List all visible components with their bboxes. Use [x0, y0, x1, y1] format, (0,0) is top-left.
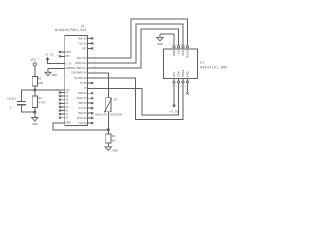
svg-text:CSN: CSN [177, 71, 181, 77]
NRF pin numbers bottom [171, 85, 187, 88]
wire VCC port to R1 [34, 66, 36, 76]
junction dot analog node [107, 129, 109, 131]
wire SCK: J1 D13 to NRF SCK [92, 24, 183, 63]
svg-text:MISO/D12: MISO/D12 [75, 62, 87, 65]
NRF top pin circles [173, 46, 175, 48]
svg-text:1: 1 [171, 43, 173, 46]
NRF pin numbers top [171, 43, 187, 46]
resistor R3 analog sensor body [106, 98, 111, 112]
resistor R2 body [32, 96, 37, 108]
svg-text:CE/PWM/D9: CE/PWM/D9 [74, 77, 87, 80]
wire junction down to R2 [34, 90, 36, 96]
wire R4 bottom to GND [107, 143, 109, 147]
svg-text:J1: J1 [81, 24, 85, 28]
connector J1 Arduino_Mini_3x3 body [65, 36, 88, 126]
GND symbol below R2/C1 [32, 118, 38, 122]
svg-text:3: 3 [176, 43, 178, 46]
svg-text:+3.3V: +3.3V [44, 53, 53, 56]
svg-text:A4: A4 [65, 102, 68, 105]
svg-text:AIN1/D7: AIN1/D7 [77, 97, 88, 100]
resistor R1 body [32, 76, 37, 86]
no-connect X mark NRF IRQ [186, 92, 188, 94]
svg-text:A2: A2 [65, 109, 68, 112]
junction dot R1/R2/C1/VCC [34, 89, 36, 91]
svg-text:A0: A0 [65, 117, 68, 120]
svg-text:NRF24L01_BRD: NRF24L01_BRD [200, 65, 227, 69]
svg-text:PWM/D5: PWM/D5 [78, 102, 87, 105]
svg-text:5: 5 [180, 43, 182, 46]
svg-text:4: 4 [176, 85, 178, 88]
GND symbol left of J1 [45, 72, 51, 75]
svg-text:470K: 470K [38, 102, 45, 105]
svg-text:ANALOG SENSOR: ANALOG SENSOR [95, 114, 122, 117]
wire R2 bottom to GND [34, 108, 36, 118]
junction dot C1/R2 bottom [34, 111, 36, 113]
svg-text:3.3V: 3.3V [65, 62, 71, 65]
wire J1 GND pin to GND symbol [48, 68, 60, 72]
svg-text:GND: GND [172, 50, 176, 56]
svg-text:R3: R3 [114, 99, 118, 102]
svg-text:TXD/D1: TXD/D1 [78, 42, 87, 45]
J1 left pin stubs [60, 52, 65, 123]
svg-text:R1: R1 [38, 78, 42, 81]
+3.3V power symbol NRF (down arrow) [173, 105, 176, 108]
J1 left pin name labels [65, 51, 71, 125]
wire NRF VCC pin to +3.3V [173, 83, 175, 105]
resistor R4 body [106, 134, 111, 143]
wire R1 bottom to junction [34, 86, 36, 90]
NRF bottom pin stubs and circles [174, 79, 188, 81]
svg-text:CE: CE [177, 50, 181, 54]
VCC power port circle [33, 63, 36, 66]
svg-text:SCK/D13: SCK/D13 [77, 57, 88, 60]
capacitor C1 plates [17, 100, 26, 102]
NRF pin labels top row [172, 50, 190, 58]
svg-text:GND: GND [32, 123, 38, 126]
svg-text:VCC: VCC [31, 58, 37, 62]
svg-text:PWM/D6: PWM/D6 [78, 92, 87, 95]
svg-text:D7: D7 [84, 87, 87, 90]
svg-text:7: 7 [185, 43, 187, 46]
svg-text:A6: A6 [65, 95, 68, 98]
wire C1 top [22, 90, 35, 101]
J1 pin numbers right [94, 55, 96, 88]
wire R3 bottom to node [107, 112, 109, 130]
svg-text:P1: P1 [200, 61, 204, 65]
wire A0 to analog node [53, 123, 109, 130]
svg-text:RST: RST [65, 55, 70, 58]
svg-text:XCK/D4: XCK/D4 [78, 107, 87, 110]
svg-text:RST: RST [82, 47, 87, 50]
svg-text:MOSI/PWM/D11: MOSI/PWM/D11 [70, 67, 88, 70]
svg-text:10uF1: 10uF1 [7, 97, 16, 100]
svg-text:Arduino_Mini_3x3: Arduino_Mini_3x3 [55, 28, 86, 33]
svg-text:A1: A1 [65, 113, 68, 116]
svg-text:MOSI: MOSI [181, 70, 185, 78]
wire NRF IRQ stub [187, 83, 189, 92]
wire NRF GND pin to GND symbol [160, 34, 174, 46]
sensor arrow through R3 [104, 99, 111, 113]
svg-text:TX/D8: TX/D8 [80, 82, 88, 85]
svg-text:VCC: VCC [172, 71, 176, 77]
GND symbol NRF top [157, 34, 163, 41]
svg-text:SCK: SCK [181, 50, 185, 56]
svg-text:GND: GND [112, 150, 118, 153]
svg-text:8: 8 [185, 85, 187, 88]
svg-text:GND: GND [52, 74, 58, 77]
svg-text:RXD/D0: RXD/D0 [78, 37, 87, 40]
J1 pin numbers left [57, 49, 59, 123]
svg-text:A3: A3 [65, 106, 68, 109]
svg-text:INT0/D2: INT0/D2 [77, 117, 88, 120]
wire CE: J1 D9 to NRF CE [92, 29, 178, 68]
svg-text:2: 2 [57, 49, 59, 52]
svg-text:BOOT: BOOT [65, 51, 71, 54]
wire CSN: J1 D10 to NRF CSN via bottom U [92, 83, 178, 115]
wire node to R4 [107, 130, 109, 134]
svg-text:MISO: MISO [186, 50, 190, 58]
svg-text:CSN/PWM/D10: CSN/PWM/D10 [71, 72, 87, 75]
wire +3.3V symbol to J1 3.3V pin [48, 60, 60, 64]
svg-text:A5: A5 [65, 99, 68, 102]
no-connect X marks J1 right [91, 37, 93, 124]
svg-text:6: 6 [180, 85, 182, 88]
svg-text:IRQ: IRQ [186, 71, 190, 77]
NRF pin labels bottom row [172, 70, 190, 78]
svg-text:+3.3V: +3.3V [169, 111, 178, 114]
NRF24L01 board P1 body [164, 49, 198, 79]
svg-text:R2: R2 [38, 97, 42, 100]
wire junction to J1 VCC pin [35, 89, 60, 91]
svg-text:2: 2 [171, 85, 173, 88]
J1 right pin stubs [88, 38, 93, 123]
svg-text:C: C [10, 106, 12, 109]
wire MISO: J1 D12 to NRF MISO via top bracket [92, 19, 187, 58]
wire sensor supply: J1 pin to R3 top [92, 73, 108, 98]
+3.3V power symbol left (up arrow) [46, 57, 49, 60]
wire C1 bottom [22, 105, 35, 112]
svg-text:1M0: 1M0 [38, 82, 44, 85]
svg-text:PWM/D3: PWM/D3 [78, 112, 87, 115]
svg-text:1K: 1K [112, 140, 116, 143]
svg-text:2: 2 [57, 54, 59, 57]
svg-text:GND: GND [65, 67, 70, 70]
svg-text:TXD/D1: TXD/D1 [78, 122, 87, 125]
svg-text:GND: GND [157, 43, 163, 46]
no-connect X marks J1 left [59, 51, 61, 119]
J1 right pin name labels [70, 37, 88, 125]
svg-text:R4: R4 [112, 135, 116, 138]
wire MOSI: J1 D11 to NRF MOSI via bottom U [92, 78, 183, 119]
GND symbol below R4 [105, 147, 111, 151]
svg-text:AREF: AREF [65, 122, 71, 125]
